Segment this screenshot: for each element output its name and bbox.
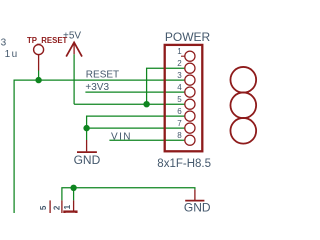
regulator U body outline (cut) [64, 212, 76, 220]
svg-text:RESET: RESET [86, 70, 119, 81]
test point TP_RESET pin [38, 55, 40, 71]
svg-text:7: 7 [177, 119, 182, 128]
power symbol +5V pin [73, 42, 75, 54]
svg-text:POWER: POWER [165, 30, 211, 44]
test point TP_RESET circle [34, 45, 44, 55]
wire bottom GND net [62, 188, 195, 201]
svg-text:4: 4 [177, 83, 182, 92]
node junction +5V jog [143, 101, 149, 107]
connector pin 3 circle [185, 75, 195, 85]
connector pin 6 circle [185, 111, 195, 121]
mounting hole circle 2 [230, 92, 256, 118]
svg-text:5: 5 [39, 205, 48, 210]
svg-text:8x1F-H8.5: 8x1F-H8.5 [157, 158, 211, 170]
svg-text:3: 3 [177, 71, 182, 80]
wire RESET horizontal [14, 80, 184, 213]
svg-text:2: 2 [177, 59, 182, 68]
power symbol +5V arrow [66, 42, 82, 56]
wire +3V3 to pin 4 [85, 91, 184, 93]
svg-text:+5V: +5V [63, 31, 81, 42]
svg-text:1: 1 [177, 47, 182, 56]
connector pin 2 circle [185, 63, 195, 73]
wire +5V horizontal to connector row5 [74, 103, 184, 105]
node junction TP_RESET on RESET wire [35, 77, 41, 83]
ground symbol bar (left) [77, 151, 97, 153]
regulator U pin 1 stub [73, 200, 75, 211]
wire VIN to pin 8 [109, 139, 184, 141]
svg-text:C3: C3 [0, 38, 7, 49]
node junction bottom [70, 185, 76, 191]
connector pin 5 circle [185, 99, 195, 109]
mounting hole circle 1 [230, 67, 256, 93]
svg-text:5: 5 [177, 95, 182, 104]
connector pin 8 circle [185, 135, 195, 145]
ground symbol pin (left) [86, 140, 88, 151]
svg-text:GND: GND [184, 201, 211, 214]
mounting hole circle 3 [230, 118, 256, 144]
wire TP_RESET pin to junction [38, 71, 40, 81]
ground symbol bar (bottom right) [185, 200, 204, 202]
wire junction down to U pin 1 [73, 188, 75, 201]
connector pin 7 circle [185, 123, 195, 133]
svg-text:+3V3: +3V3 [85, 82, 109, 93]
node junction GND [83, 125, 89, 131]
wire +5V vertical [73, 54, 75, 104]
wire GND pin 7 [87, 127, 185, 129]
svg-text:1u: 1u [5, 49, 19, 60]
svg-text:TP_RESET: TP_RESET [27, 36, 68, 45]
connector pin 4 circle [185, 87, 195, 97]
regulator U pin 5 stub [49, 200, 51, 213]
wire GND pin 6 [87, 116, 185, 128]
wire +5V jog up to pin 2 [147, 68, 185, 104]
svg-text:GND: GND [74, 153, 101, 167]
svg-text:2: 2 [52, 205, 61, 210]
ground symbol pin (bottom right) [194, 190, 196, 200]
connector JP body rectangle [165, 45, 203, 151]
connector pin 1 circle [185, 51, 195, 61]
svg-text:8: 8 [177, 131, 182, 140]
wire GND stub down [86, 128, 88, 140]
svg-text:6: 6 [177, 107, 182, 116]
regulator U pin 2 stub [61, 200, 63, 213]
connector pin 1 stub [181, 55, 185, 57]
svg-text:1: 1 [63, 204, 72, 209]
